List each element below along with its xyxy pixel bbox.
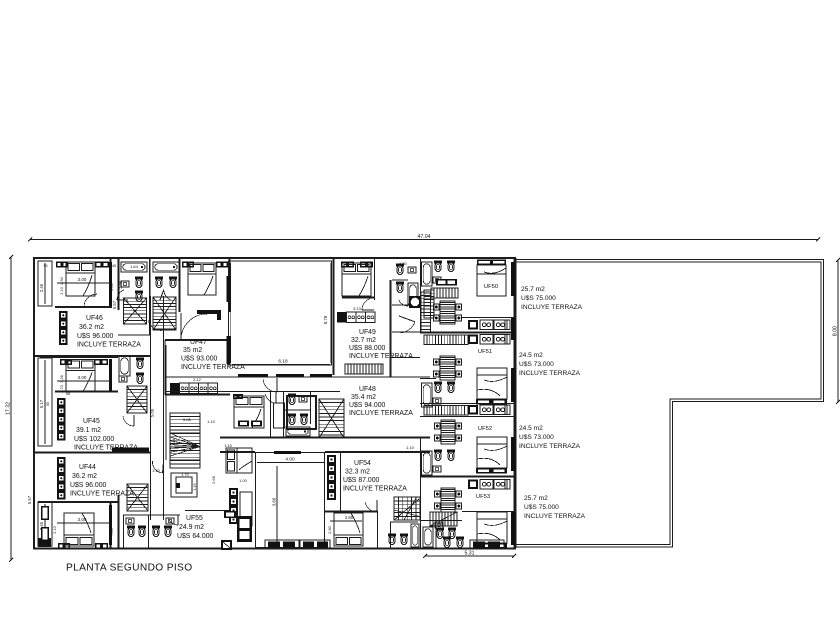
stair core top <box>431 288 458 298</box>
svg-text:UF54: UF54 <box>354 460 371 467</box>
svg-text:U$S 75.000: U$S 75.000 <box>524 504 559 511</box>
wall chunk corridor left <box>112 448 149 452</box>
stair UF48 <box>319 399 344 438</box>
wall UF44 bedroom right <box>110 502 112 548</box>
bath UF52 cluster <box>422 451 433 475</box>
table UF52 <box>441 420 455 444</box>
table UF50 <box>440 301 455 324</box>
door UF48 <box>275 392 277 403</box>
wall UF48 bed east <box>270 392 272 437</box>
wall UF46 bedroom right <box>110 258 112 308</box>
kitchen UF45 <box>57 398 66 441</box>
bath UF55a walls <box>123 515 125 548</box>
wall UF51/52 b <box>420 416 515 418</box>
svg-text:UF49: UF49 <box>359 329 376 336</box>
svg-text:U$S 75.000: U$S 75.000 <box>521 295 556 302</box>
wardrobe UF46 right <box>95 262 109 268</box>
svg-text:UF52: UF52 <box>478 426 492 432</box>
svg-text:24.5 m2: 24.5 m2 <box>519 425 543 432</box>
svg-text:1.45: 1.45 <box>193 484 197 491</box>
patio inner line <box>230 263 232 363</box>
svg-text:5.31: 5.31 <box>464 551 474 557</box>
svg-text:1.10: 1.10 <box>152 468 161 473</box>
svg-text:3.00: 3.00 <box>78 375 87 380</box>
svg-text:8.00: 8.00 <box>833 326 839 336</box>
svg-text:4.00: 4.00 <box>285 457 295 463</box>
svg-text:UF55: UF55 <box>186 515 203 522</box>
wall UF51/52 a <box>420 403 515 405</box>
wardrobe UF44 <box>58 543 70 549</box>
door UF49 bedroom <box>362 309 374 311</box>
wall UF44 bedroom top <box>38 501 118 503</box>
bath UF49 door <box>407 296 409 306</box>
wall UF49 bedroom south <box>342 297 375 299</box>
stair strip UF52 <box>424 406 468 416</box>
svg-text:39.1 m2: 39.1 m2 <box>76 427 101 434</box>
bath UF51 cluster <box>422 383 433 407</box>
svg-text:PLANTA SEGUNDO PISO: PLANTA SEGUNDO PISO <box>66 563 192 574</box>
svg-text:3.21: 3.21 <box>171 437 176 446</box>
svg-text:U$S 88.000: U$S 88.000 <box>349 345 386 352</box>
svg-text:UF45: UF45 <box>83 418 100 425</box>
svg-text:U$S 96.000: U$S 96.000 <box>70 482 107 489</box>
wall UF49 west <box>333 258 335 375</box>
wall x420 right services <box>420 437 422 548</box>
wall UF52/53 <box>420 476 515 478</box>
patio outline <box>229 261 332 365</box>
lower patio outline <box>256 453 325 548</box>
svg-text:7.85: 7.85 <box>109 527 114 536</box>
corridor wall east lower <box>165 345 167 460</box>
step UF47 <box>197 310 221 314</box>
bed UF48 <box>234 396 264 428</box>
kitchen UF55 dark box <box>221 540 232 550</box>
svg-text:INCLUYE TERRAZA: INCLUYE TERRAZA <box>77 342 141 349</box>
kitchen bar core top <box>436 279 457 286</box>
door UF54 <box>376 500 378 512</box>
wall UF47 south <box>165 339 230 341</box>
door corridor UF48 <box>276 378 278 392</box>
svg-text:2.10: 2.10 <box>60 287 64 294</box>
svg-text:INCLUYE TERRAZA: INCLUYE TERRAZA <box>70 491 134 498</box>
bed UF44 <box>64 513 94 546</box>
stair flight A <box>124 298 147 324</box>
kitchen UF47 <box>170 383 180 394</box>
svg-text:24.5 m2: 24.5 m2 <box>519 352 543 359</box>
bath UF49 tub <box>408 283 418 304</box>
kitchen UF55 top <box>224 511 236 518</box>
svg-text:INCLUYE TERRAZA: INCLUYE TERRAZA <box>343 486 407 493</box>
door corridor UF44 low <box>162 462 165 473</box>
bath UF55b fixtures <box>152 526 160 529</box>
kitchen row UF50 <box>468 320 478 330</box>
svg-text:2.12: 2.12 <box>193 377 202 382</box>
wall UF50 kitchen top <box>462 317 515 319</box>
stair UF54 <box>394 497 420 520</box>
bath UF50 cluster <box>422 262 433 286</box>
sofa bottom 3 <box>470 540 504 549</box>
wall UF45 top inner <box>40 357 118 359</box>
dimension line 17.32 left <box>10 257 12 560</box>
bath UF54 fixtures <box>388 534 396 537</box>
svg-text:6.18: 6.18 <box>278 359 288 365</box>
bed UF49 <box>342 263 371 296</box>
wall UF55 zone <box>185 510 230 512</box>
svg-text:1.10: 1.10 <box>224 443 233 448</box>
svg-text:35.4 m2: 35.4 m2 <box>351 394 376 401</box>
svg-text:1.70: 1.70 <box>181 473 188 477</box>
patio bottom wall <box>238 374 268 378</box>
svg-text:U$S 93.000: U$S 93.000 <box>181 356 218 363</box>
wall UF45 bottom <box>34 452 150 454</box>
svg-text:47.04: 47.04 <box>418 234 431 240</box>
svg-text:2.60: 2.60 <box>328 526 332 533</box>
bed UF51 <box>477 368 507 399</box>
door arc UF47 <box>180 313 182 339</box>
corridor wall east <box>163 296 165 520</box>
svg-text:58: 58 <box>66 392 70 396</box>
wall UF47 left <box>164 340 166 395</box>
kitchen strip right of patio <box>327 455 336 500</box>
corridor lower wall <box>220 451 255 453</box>
wall UF54 west <box>340 452 342 512</box>
svg-text:5.17: 5.17 <box>39 399 44 408</box>
svg-text:2.70: 2.70 <box>60 385 64 392</box>
stair core left <box>421 292 431 332</box>
bed UF54 <box>334 513 363 546</box>
dim 6.18 patio <box>232 364 330 366</box>
svg-text:2.46: 2.46 <box>39 283 44 292</box>
core west wall <box>420 258 422 332</box>
building outer walls <box>33 257 516 259</box>
svg-text:2.50: 2.50 <box>60 277 64 284</box>
svg-text:U$S 73.000: U$S 73.000 <box>519 361 554 368</box>
svg-text:U$S 102.000: U$S 102.000 <box>74 436 114 443</box>
wall UF47 right <box>229 258 231 312</box>
bath UF48 toilet <box>288 394 296 397</box>
svg-text:24.9 m2: 24.9 m2 <box>179 524 204 531</box>
svg-text:32.3 m2: 32.3 m2 <box>345 469 370 476</box>
dim 4.00 lower patio <box>257 462 324 464</box>
stair main right <box>430 512 457 526</box>
wall below stairs <box>118 334 150 336</box>
svg-text:35 m2: 35 m2 <box>183 347 202 354</box>
sofa bottom 1 <box>265 540 299 549</box>
bath UF54 walls <box>390 522 392 548</box>
sofa bottom 2 <box>300 540 330 549</box>
svg-text:25.7 m2: 25.7 m2 <box>521 286 545 293</box>
table UF53 <box>441 488 455 512</box>
svg-text:5.57: 5.57 <box>27 495 32 504</box>
door UF55 <box>177 515 179 525</box>
wall UF45 bedroom bottom <box>55 391 118 393</box>
fixtures bottom mid <box>443 537 451 548</box>
wardrobe UF46 left <box>56 262 68 268</box>
kitchen row UF51 <box>468 335 478 345</box>
svg-text:3.00: 3.00 <box>78 277 87 282</box>
bed UF46 <box>66 262 95 296</box>
balcony UF45 <box>38 358 52 446</box>
wall UF48 bottom corridor <box>220 437 430 439</box>
wall x118 lower <box>118 495 120 548</box>
svg-text:32.7 m2: 32.7 m2 <box>351 337 376 344</box>
bath UF48 tub <box>286 427 310 436</box>
svg-text:3.66: 3.66 <box>272 497 277 506</box>
svg-text:3.00: 3.00 <box>78 517 87 522</box>
bidet bath1 <box>135 291 143 294</box>
svg-text:INCLUYE TERRAZA: INCLUYE TERRAZA <box>349 353 413 360</box>
svg-text:2.68: 2.68 <box>211 475 216 484</box>
wall UF53 bed top <box>462 511 515 513</box>
bath UF49 sink <box>408 267 416 273</box>
stair UF45 <box>127 386 147 413</box>
svg-text:5.80: 5.80 <box>150 408 155 417</box>
stair flight B <box>153 297 176 330</box>
bathtub bath1 <box>121 262 147 272</box>
svg-text:UF46: UF46 <box>86 315 103 322</box>
bed UF52 <box>477 437 507 468</box>
svg-text:UF44: UF44 <box>79 464 96 471</box>
bath UF45 toilet <box>136 358 144 361</box>
wall UF47 kitchen bottom <box>165 394 230 396</box>
wall bath top divider <box>149 258 151 335</box>
svg-text:INCLUYE TERRAZA: INCLUYE TERRAZA <box>521 304 583 311</box>
dim 3.00 UF44 <box>57 522 110 524</box>
bed UF47 <box>188 263 216 295</box>
svg-text:U$S 87.000: U$S 87.000 <box>343 477 380 484</box>
svg-text:UF50: UF50 <box>484 284 498 290</box>
dim 3.00 UF45 <box>57 380 110 382</box>
svg-text:INCLUYE TERRAZA: INCLUYE TERRAZA <box>519 443 581 450</box>
svg-text:1.10: 1.10 <box>207 419 216 424</box>
wall UF48 top <box>232 391 340 393</box>
svg-text:INCLUYE TERRAZA: INCLUYE TERRAZA <box>519 370 581 377</box>
svg-text:U$S 73.000: U$S 73.000 <box>519 434 554 441</box>
toilet bath1 <box>135 277 143 280</box>
dim 3.00 UF46 <box>57 282 110 284</box>
wardrobe UF49 <box>341 262 354 268</box>
toilet bath2 <box>155 277 163 280</box>
wall UF54 bedroom top <box>325 511 378 513</box>
hall sofa <box>226 448 252 473</box>
svg-text:INCLUYE TERRAZA: INCLUYE TERRAZA <box>524 513 586 520</box>
svg-text:1.10: 1.10 <box>406 445 415 450</box>
svg-text:95: 95 <box>44 264 48 268</box>
wall UF54 bedroom east <box>377 511 379 548</box>
svg-text:2.80: 2.80 <box>345 515 354 520</box>
svg-text:55: 55 <box>46 402 50 406</box>
wall bath1/2 <box>149 258 151 300</box>
wardrobe UF48 <box>233 394 243 399</box>
svg-text:25.7 m2: 25.7 m2 <box>524 495 548 502</box>
elevator <box>171 473 197 497</box>
dimension line 8.00 right <box>837 260 839 402</box>
door corridor UF45 <box>133 415 135 426</box>
bath UF45 bidet <box>136 373 144 376</box>
wall UF47 bedroom left <box>179 258 181 312</box>
wall x390 vertical <box>390 280 392 377</box>
wall UF50/51 <box>420 332 515 334</box>
wall UF49 bedroom east <box>374 258 376 300</box>
door bath1 <box>117 299 128 301</box>
wardrobe UF47 <box>182 262 194 268</box>
svg-text:UF48: UF48 <box>359 386 376 393</box>
svg-text:5.78: 5.78 <box>323 315 328 324</box>
svg-text:U$S 96.000: U$S 96.000 <box>77 333 114 340</box>
corridor wall west <box>150 296 152 520</box>
svg-text:36.2 m2: 36.2 m2 <box>72 473 97 480</box>
bath UF49 walls <box>392 304 420 306</box>
stairwell main <box>170 413 200 468</box>
stair core small <box>424 290 434 318</box>
wardrobe UF45 <box>60 359 72 365</box>
kitchen UF49 <box>337 312 347 323</box>
svg-text:U$S 94.000: U$S 94.000 <box>349 402 386 409</box>
svg-text:2.06: 2.06 <box>119 281 123 288</box>
svg-text:UF47: UF47 <box>190 339 207 346</box>
kitchen row UF52 <box>468 405 478 415</box>
door corridor UF46 <box>149 320 151 332</box>
sink bath1 <box>121 281 129 287</box>
svg-text:UF51: UF51 <box>478 349 492 355</box>
bath UF55a fixtures <box>127 526 135 529</box>
bath UF53 walls <box>435 521 437 548</box>
terrace outline <box>516 260 824 548</box>
dim 3.66 lower patio <box>276 466 278 547</box>
svg-text:17.32: 17.32 <box>6 402 12 415</box>
wall UF46/bath <box>118 258 120 310</box>
bath UF45 tub <box>119 356 130 376</box>
bed UF50 <box>477 265 506 296</box>
balcony UF46 <box>38 261 52 306</box>
door arc UF46 bedroom <box>84 306 97 308</box>
svg-text:3.26: 3.26 <box>60 375 64 382</box>
svg-text:1.64: 1.64 <box>130 264 139 269</box>
bath UF53 cluster <box>423 527 433 547</box>
bathtub bath2 <box>153 262 179 272</box>
wall UF51 mid <box>420 378 436 380</box>
svg-text:5.57: 5.57 <box>112 300 117 309</box>
stair strip UF51 <box>424 335 468 345</box>
kitchen UF46 <box>59 311 68 345</box>
wall UF46 bedroom bottom <box>55 306 112 308</box>
svg-text:1.50: 1.50 <box>399 262 406 266</box>
bed UF53 <box>477 512 507 543</box>
bidet bath2 <box>169 277 177 280</box>
dim 2.80 UF54 <box>330 520 362 522</box>
kitchen UF44 <box>57 457 66 500</box>
kitchen row UF53 <box>468 480 478 490</box>
wall UF46 bottom <box>34 355 150 357</box>
corridor horizontal walls <box>165 376 430 378</box>
svg-text:3.13: 3.13 <box>353 306 362 311</box>
svg-text:36.2 m2: 36.2 m2 <box>79 324 104 331</box>
bath UF48 walls <box>283 392 285 437</box>
door UF48 entry <box>399 316 415 322</box>
svg-text:2.10: 2.10 <box>53 526 57 533</box>
svg-text:45: 45 <box>112 264 116 268</box>
bath UF45 sink <box>119 376 127 382</box>
right wall window bars <box>511 262 516 296</box>
stair UF55 <box>127 484 148 511</box>
stair UF49 <box>345 364 383 374</box>
svg-text:1.00: 1.00 <box>239 479 246 483</box>
svg-text:INCLUYE TERRAZA: INCLUYE TERRAZA <box>349 410 413 417</box>
bath UF48 sink <box>299 396 307 402</box>
dimension line 5.31 bottom <box>425 555 514 557</box>
svg-text:2.06: 2.06 <box>109 282 114 291</box>
laundry basin <box>409 296 421 308</box>
balcony UF44 <box>38 538 51 547</box>
door bath2 <box>160 290 164 300</box>
bed UF45 <box>66 360 95 392</box>
svg-text:5.85: 5.85 <box>183 417 192 422</box>
kitchen UF44 lower <box>229 488 238 524</box>
dimension line 47.04 top <box>30 239 818 241</box>
bath UF49 toilet <box>396 264 404 267</box>
table UF51 <box>440 356 455 380</box>
svg-text:U$S 64.000: U$S 64.000 <box>177 533 214 540</box>
svg-text:UF53: UF53 <box>476 494 490 500</box>
